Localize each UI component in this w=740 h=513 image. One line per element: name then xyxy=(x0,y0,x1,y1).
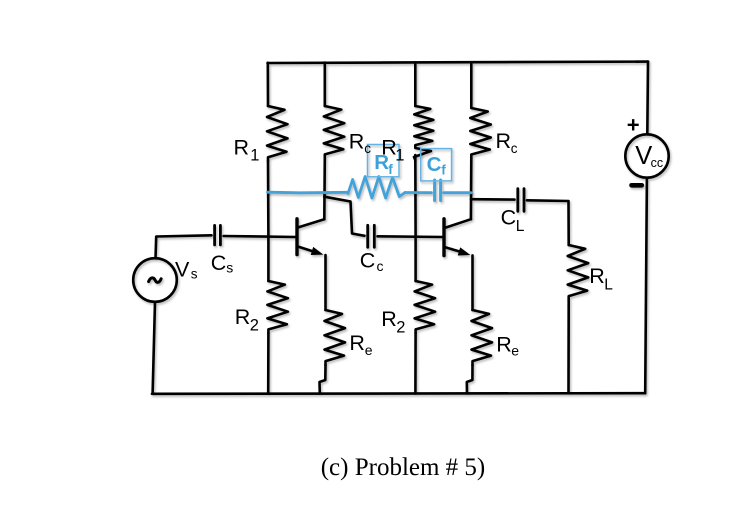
svg-text:1: 1 xyxy=(250,147,259,165)
box around Rf label xyxy=(368,145,400,177)
svg-text:R: R xyxy=(235,305,251,329)
resistor Re (stage 1) xyxy=(325,310,346,365)
svg-text:c: c xyxy=(511,141,518,156)
capacitor CL plate 2 xyxy=(523,189,526,212)
wire Re to ground rail xyxy=(320,365,326,394)
wire R2 to ground rail stage 2 xyxy=(414,333,417,393)
resistor RL xyxy=(568,245,589,300)
transistor Q1 emitter xyxy=(297,246,315,252)
box around Cf label xyxy=(421,149,452,181)
Vcc minus sign xyxy=(632,183,642,188)
wire Vs top to Cs xyxy=(156,235,212,258)
resistor R2 (stage 2) xyxy=(415,281,436,333)
transistor Q1 collector xyxy=(297,219,324,227)
wire top rail to Rc xyxy=(323,63,326,106)
wire base node to R2 stage 2 xyxy=(414,237,417,281)
wire R1 to base node xyxy=(267,161,270,237)
capacitor Cf plate 2 (blue) xyxy=(439,180,442,201)
svg-text:2: 2 xyxy=(396,318,405,336)
resistor R1 (stage 1) xyxy=(267,106,288,161)
svg-text:R: R xyxy=(496,333,512,357)
wire top rail to Rc stage 2 xyxy=(470,62,473,108)
svg-text:C: C xyxy=(501,205,517,229)
svg-text:C: C xyxy=(360,248,376,272)
svg-text:+: + xyxy=(627,113,640,138)
svg-text:e: e xyxy=(365,342,373,358)
resistor R1 (stage 2) xyxy=(414,106,433,160)
svg-text:R: R xyxy=(349,331,365,355)
svg-text:s: s xyxy=(191,267,198,282)
transistor Q2 emitter xyxy=(444,247,462,252)
svg-text:R: R xyxy=(234,136,250,160)
resistor Rc (stage 2) xyxy=(470,108,491,158)
source Vcc circle xyxy=(625,134,668,177)
wire base node to R2 xyxy=(267,237,270,281)
transistor Q2 base bar xyxy=(442,219,445,256)
wire top rail to R1 stage 2 xyxy=(414,62,417,106)
capacitor Cs plate 2 xyxy=(219,225,222,245)
source Vs circle xyxy=(133,258,177,302)
wire Cf to Q2 collector column (blue) xyxy=(444,191,471,194)
capacitor Cc plate 2 xyxy=(373,225,376,247)
wire top rail to Vcc xyxy=(646,62,649,135)
svg-text:R: R xyxy=(589,264,605,288)
resistor Rf (blue) xyxy=(348,177,405,199)
transistor Q2 emitter arrow xyxy=(458,247,471,255)
wire Q2 emitter to Re stage 2 xyxy=(471,255,474,310)
svg-text:L: L xyxy=(516,218,525,235)
transistor Q1 emitter arrow xyxy=(311,247,324,255)
capacitor CL plate 1 xyxy=(516,189,519,212)
svg-text:1: 1 xyxy=(395,146,404,164)
transistor Q1 base bar xyxy=(295,219,298,255)
wire R2 to ground rail xyxy=(267,333,270,394)
svg-text:c: c xyxy=(377,258,384,274)
wire top rail to R1 xyxy=(266,63,269,106)
wire Cs to Q1 base xyxy=(224,236,297,237)
svg-text:V: V xyxy=(175,257,190,281)
wire Re to ground rail stage 2 xyxy=(467,365,473,393)
wire Vs bottom to ground rail xyxy=(153,302,155,394)
svg-text:C: C xyxy=(427,153,442,176)
svg-text:R: R xyxy=(496,129,512,153)
wire RL to ground rail xyxy=(567,300,570,393)
svg-text:R: R xyxy=(349,130,365,154)
svg-text:(c) Problem # 5): (c) Problem # 5) xyxy=(321,454,486,481)
svg-text:c: c xyxy=(364,141,371,156)
svg-text:e: e xyxy=(511,342,519,358)
capacitor Cc plate 1 xyxy=(366,225,369,247)
wire Rc to collector node stage 2 xyxy=(470,158,473,219)
svg-text:cc: cc xyxy=(651,156,664,170)
source Vs tilde xyxy=(149,278,162,282)
wire top supply rail xyxy=(268,62,649,63)
wire CL to RL xyxy=(527,200,569,245)
transistor Q2 collector xyxy=(444,219,471,228)
resistor Re (stage 2) xyxy=(472,310,493,365)
capacitor Cs plate 1 xyxy=(213,225,216,245)
svg-text:R: R xyxy=(374,151,389,174)
wire Rc to collector node xyxy=(323,158,326,219)
wire bottom ground rail xyxy=(152,392,645,395)
svg-text:L: L xyxy=(604,276,613,293)
resistor R2 (stage 1) xyxy=(267,281,288,333)
svg-text:s: s xyxy=(226,259,233,275)
wire collector node to Cc xyxy=(324,197,364,236)
wire Cc to Q2 base xyxy=(378,235,444,238)
wire collector node to CL xyxy=(471,198,515,201)
svg-text:R: R xyxy=(381,307,397,331)
capacitor Cf plate 1 (blue) xyxy=(433,180,436,201)
svg-text:f: f xyxy=(441,163,446,178)
wire Vcc to ground rail xyxy=(645,178,647,394)
wire Q1 emitter to Re xyxy=(324,255,327,310)
resistor Rc (stage 1) xyxy=(324,106,345,158)
svg-text:f: f xyxy=(388,162,393,177)
svg-text:C: C xyxy=(211,251,227,275)
svg-text:2: 2 xyxy=(250,317,259,335)
wire R1 to base node stage 2 xyxy=(414,155,417,237)
wire Rf to Cf (blue) xyxy=(405,191,432,194)
wire feedback from Q1 base column (blue) xyxy=(268,191,349,194)
